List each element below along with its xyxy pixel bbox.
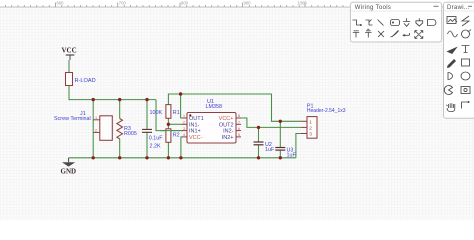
resistor R3 (shunt R005) <box>117 119 137 139</box>
drag icon <box>415 31 423 39</box>
wire VCC- to ground rail <box>181 137 183 158</box>
svg-text:8: 8 <box>238 114 240 118</box>
svg-text:VCC-: VCC- <box>189 135 203 141</box>
output rail dot <box>179 92 182 95</box>
Drawing Tools panel <box>444 2 474 118</box>
resistor R2 2.2K <box>150 129 180 150</box>
vcc flag 2 <box>365 29 371 37</box>
ellipse tool <box>461 72 470 80</box>
op-amp U1 LM358 <box>182 99 241 143</box>
svg-text:2: 2 <box>95 129 97 133</box>
ground flag <box>61 158 77 176</box>
svg-text:R1: R1 <box>173 110 180 116</box>
svg-text:0.1uF: 0.1uF <box>149 135 163 141</box>
junction dots <box>92 92 282 159</box>
pin icon <box>403 33 410 35</box>
capacitor C1 0.1uF <box>142 129 163 141</box>
svg-text:1: 1 <box>183 114 185 118</box>
pin stubs left <box>182 118 241 137</box>
svg-text:Screw Terminal: Screw Terminal <box>54 116 91 122</box>
svg-text:2: 2 <box>309 126 312 132</box>
vcc flag 1 <box>353 31 359 38</box>
arc tool <box>462 30 470 38</box>
svg-text:3: 3 <box>183 127 185 131</box>
wire output rail (upper) <box>168 94 301 121</box>
rect tool <box>462 59 470 66</box>
pie tool <box>444 85 452 94</box>
svg-text:800: 800 <box>181 0 189 5</box>
svg-text:Header-2.54_1x3: Header-2.54_1x3 <box>307 108 346 114</box>
wire R1 to R2 <box>167 118 169 129</box>
wire U3 leads <box>279 121 281 147</box>
icons row 1 <box>353 18 437 26</box>
svg-text:3: 3 <box>309 132 312 138</box>
arrow tool <box>448 48 457 54</box>
pin1 wire dot <box>279 120 282 123</box>
svg-text:OUT2: OUT2 <box>219 122 234 128</box>
wire ground rail <box>69 157 296 159</box>
image tool <box>447 17 456 24</box>
svg-text:Drawi...: Drawi... <box>447 5 470 11</box>
svg-text:1: 1 <box>95 116 97 120</box>
svg-text:IN2+: IN2+ <box>222 135 234 141</box>
svg-text:7: 7 <box>238 121 240 125</box>
wire R2 bottom lead <box>167 142 169 158</box>
Wiring Tools panel <box>350 2 441 42</box>
hand tool <box>446 103 455 111</box>
bus entry icon <box>378 20 384 26</box>
wire VCC+ to header pin2 <box>241 118 302 127</box>
polyline tool <box>462 102 469 109</box>
svg-text:1000: 1000 <box>297 0 307 5</box>
svg-text:GND: GND <box>61 168 77 176</box>
divider dot <box>167 123 170 126</box>
wire node-A rail (lower top rail) <box>69 86 156 100</box>
arc/halfcircle tool <box>448 73 453 80</box>
net port icon <box>428 20 437 26</box>
ground flag icon <box>403 18 410 26</box>
svg-text:VCC+: VCC+ <box>219 116 234 122</box>
bezier tool <box>448 31 458 37</box>
wire icon <box>353 20 361 25</box>
no connect icon <box>378 31 384 37</box>
net label icon <box>391 20 400 26</box>
icons row 2 <box>353 29 423 38</box>
wire header pin3 to ground rail <box>296 134 301 158</box>
wire OUT1 riser <box>181 94 183 118</box>
svg-text:5: 5 <box>238 133 240 137</box>
bus icon <box>366 20 373 26</box>
svg-text:1uF: 1uF <box>287 153 297 159</box>
VCC flag <box>62 47 77 73</box>
capacitor U3 1uF <box>275 147 296 158</box>
svg-text:LM358: LM358 <box>206 104 222 110</box>
svg-text:4: 4 <box>183 133 185 137</box>
wire J1 vertical <box>92 100 94 158</box>
freehand wire icon <box>391 30 399 37</box>
canvas tool <box>461 87 470 94</box>
resistor R-LOAD <box>66 73 96 87</box>
svg-text:OUT1: OUT1 <box>189 116 204 122</box>
svg-text:2.2K: 2.2K <box>150 144 161 150</box>
pin2 wire dot <box>257 126 260 129</box>
svg-text:R-LOAD: R-LOAD <box>75 78 96 84</box>
svg-text:600: 600 <box>57 0 65 5</box>
svg-text:2: 2 <box>183 121 185 125</box>
svg-text:1uF: 1uF <box>265 147 275 153</box>
svg-text:700: 700 <box>119 0 127 5</box>
ground rail dots <box>92 156 95 159</box>
net flag icon <box>416 18 423 26</box>
wire IN1+ crossing over R2 <box>160 130 183 132</box>
node A rail dots <box>92 98 95 101</box>
svg-text:R2: R2 <box>173 132 180 138</box>
wire node-A to IN1+ <box>156 100 183 131</box>
svg-text:1: 1 <box>309 119 312 125</box>
connector P1 header <box>301 104 346 139</box>
pencil tool <box>447 59 456 68</box>
svg-text:IN1+: IN1+ <box>189 129 201 135</box>
resistor R1 100K <box>150 105 180 119</box>
svg-text:VCC: VCC <box>62 47 77 55</box>
wire R3 leads <box>119 100 121 119</box>
svg-text:100K: 100K <box>150 110 163 116</box>
svg-text:Wiring Tools: Wiring Tools <box>355 5 391 11</box>
capacitor U2 1uF <box>254 142 275 153</box>
connector J1 screw terminal <box>54 111 112 141</box>
svg-text:IN1-: IN1- <box>189 122 200 128</box>
lightning polyline tool <box>462 16 469 26</box>
svg-text:900: 900 <box>244 0 252 5</box>
text tool <box>462 46 470 53</box>
svg-text:R005: R005 <box>124 131 137 137</box>
wire C1 leads <box>146 100 148 130</box>
top ruler <box>0 0 474 7</box>
wire IN1- from divider <box>168 123 182 125</box>
svg-text:IN2-: IN2- <box>223 129 234 135</box>
svg-text:6: 6 <box>238 127 240 131</box>
wire U2 leads <box>258 127 260 142</box>
